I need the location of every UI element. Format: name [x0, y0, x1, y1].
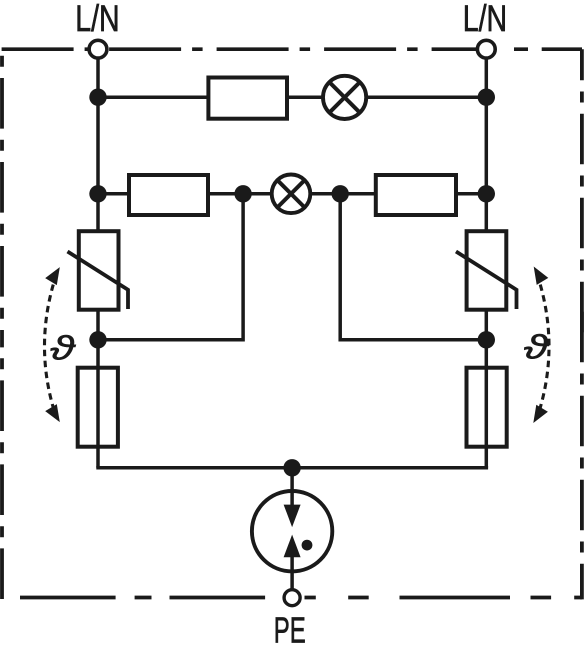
node: row1 left junction: [89, 89, 106, 106]
wire: bottom rail connecting both branches: [96, 466, 488, 470]
node: row1 right junction: [478, 89, 495, 106]
wire: drop from row2 right node down and link to right varistor bottom node: [340, 194, 486, 340]
device enclosure dash-dot boundary: right edge lower run: [580, 312, 584, 600]
node: row2 right bus junction: [478, 185, 495, 202]
spark gap F3 (triggered spark gap to PE): [252, 491, 332, 590]
svg-text:L/N: L/N: [75, 0, 119, 39]
varistor RV2 (right): [456, 231, 517, 310]
svg-text:PE: PE: [274, 609, 306, 650]
node: row2 left bus junction: [89, 185, 106, 202]
terminal L/N right: [477, 40, 495, 58]
device enclosure dash-dot boundary: left edge lower run: [0, 358, 4, 599]
thermal disconnect F1 (left, wire passes through): [78, 368, 118, 447]
device enclosure dash-dot boundary: bottom edge right half: [305, 596, 583, 600]
indicator lamp H1 (row 1): [323, 76, 366, 119]
node: bottom rail center junction: [283, 459, 300, 476]
temperature disconnect indicator right: dashed arc with two arrowheads: [533, 267, 549, 424]
node: row2 junction right of lamp: [332, 185, 349, 202]
wire: left bus vertical (L/N left terminal down to varistor top): [96, 49, 100, 231]
svg-text:ϑ: ϑ: [524, 329, 550, 366]
wire: row 1 horizontal (left bus to right bus through R1 and lamp H1): [98, 95, 486, 99]
thermal disconnect F2 (right, wire passes through): [467, 368, 507, 447]
svg-text:L/N: L/N: [463, 0, 507, 39]
wire: right bus vertical (L/N right terminal down to varistor top): [485, 49, 489, 231]
resistor R2 (row 2 left): [129, 175, 208, 215]
temperature disconnect indicator left: dashed arc with two arrowheads: [44, 267, 59, 422]
node: left varistor bottom junction: [89, 331, 106, 348]
wire: left bus vertical (varistor bottom through thermal disconnect to bottom rail): [96, 310, 100, 468]
node: right varistor bottom junction: [478, 331, 495, 348]
device enclosure dash-dot boundary: bottom edge left half: [20, 596, 292, 600]
wire: right bus vertical (varistor bottom through thermal disconnect to bottom rail): [485, 310, 489, 468]
terminal L/N left: [89, 40, 107, 58]
device enclosure dash-dot boundary: top edge: [2, 47, 477, 51]
resistor R3 (row 2 right): [376, 175, 456, 215]
varistor RV1 (left): [68, 231, 129, 310]
device enclosure dash-dot boundary: right edge upper run: [580, 49, 584, 333]
svg-text:ϑ: ϑ: [50, 330, 76, 367]
wire: row 2 horizontal (left bus to right bus through R2, lamp H2, R3): [98, 192, 486, 196]
wire: drop from row2 left node down and link to left varistor bottom node: [98, 194, 243, 340]
node: row2 junction left of lamp: [234, 185, 251, 202]
wire: center drop from bottom rail into spark gap: [290, 468, 294, 505]
resistor R1 (row 1): [208, 78, 287, 119]
indicator lamp H2 (row 2 middle): [272, 175, 311, 214]
device enclosure dash-dot boundary: left edge upper run: [0, 47, 4, 347]
terminal PE: [284, 590, 300, 606]
device enclosure dash-dot boundary: top edge right piece: [514, 47, 582, 51]
